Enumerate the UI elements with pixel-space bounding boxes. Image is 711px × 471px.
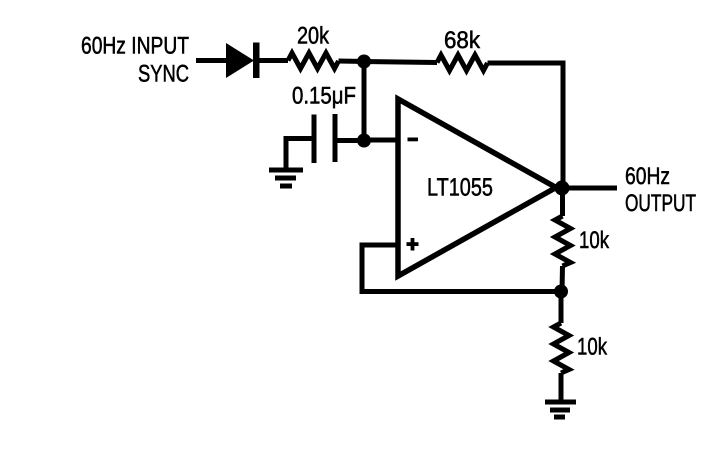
resistor R2 68k — [437, 55, 488, 71]
wire output — [556, 186, 617, 191]
ground symbol G2 — [545, 402, 576, 417]
wire node B to op-amp inverting input — [364, 138, 398, 143]
wire diode to 20k resistor — [259, 58, 288, 63]
wire 10k lower to ground — [559, 373, 564, 400]
node A junction dot — [357, 55, 371, 69]
svg-text:60Hz INPUT: 60Hz INPUT — [81, 33, 189, 60]
wire non-inverting input feedback — [362, 245, 561, 292]
svg-text:20k: 20k — [297, 23, 330, 50]
wire 20k to node A — [339, 59, 367, 65]
svg-text:10k: 10k — [579, 227, 610, 254]
svg-text:60Hz: 60Hz — [625, 163, 670, 190]
wire capacitor right plate to node B — [336, 138, 364, 143]
svg-text:OUTPUT: OUTPUT — [625, 190, 696, 217]
wire node C to 10k lower — [559, 291, 564, 323]
wire node A to 68k — [362, 62, 437, 63]
wire input to diode — [196, 58, 229, 63]
diode D1 — [226, 43, 260, 79]
resistor R3 10k upper — [555, 216, 571, 266]
op-amp inverting input minus sign — [408, 138, 419, 142]
output node junction dot — [555, 181, 570, 196]
svg-text:68k: 68k — [444, 27, 481, 54]
capacitor C1 0.15uF right plate — [333, 114, 338, 162]
svg-text:SYNC: SYNC — [138, 61, 189, 88]
op-amp U1 triangle — [398, 99, 556, 276]
wire node A down to node B — [362, 62, 367, 142]
svg-text:LT1055: LT1055 — [427, 174, 493, 202]
svg-text:10k: 10k — [577, 334, 608, 361]
wire output node to 10k top — [560, 188, 565, 216]
op-amp non-inverting input plus sign — [407, 238, 419, 251]
wire capacitor left plate to ground — [286, 139, 314, 171]
svg-text:0.15μF: 0.15μF — [292, 83, 356, 110]
resistor R1 20k — [288, 53, 339, 69]
node B junction dot — [357, 134, 371, 148]
wire 68k to top-right corner — [488, 63, 564, 188]
ground symbol G1 — [269, 170, 303, 186]
wire 10k to node C — [560, 266, 566, 292]
node C junction dot — [554, 285, 568, 299]
capacitor C1 0.15uF left plate — [312, 115, 317, 164]
resistor R4 10k lower — [554, 323, 570, 373]
